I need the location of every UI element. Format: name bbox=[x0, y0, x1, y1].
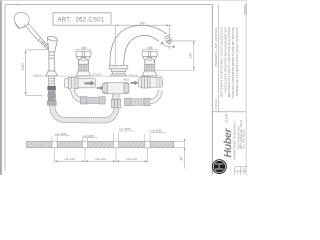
dimension 1500 (hose length) bbox=[26, 50, 47, 96]
svg-text:Huber: Huber bbox=[222, 127, 234, 157]
left supply hose bbox=[72, 89, 105, 105]
svg-text:30: 30 bbox=[180, 157, 184, 161]
hole centerlines down to dim line bbox=[55, 148, 148, 163]
ART box bbox=[53, 13, 111, 25]
svg-text:TEL. 0322 980132: TEL. 0322 980132 bbox=[242, 129, 245, 149]
arrow to tee bbox=[97, 86, 104, 90]
valve 2 escutcheon bbox=[143, 70, 157, 76]
valve 2 handle bbox=[142, 51, 157, 64]
valve2 under-deck body bbox=[139, 77, 163, 88]
svg-text:≈68: ≈68 bbox=[147, 46, 153, 50]
svg-text:57±15: 57±15 bbox=[92, 72, 101, 76]
valve 1 handle bbox=[76, 51, 91, 64]
dimension 130 bbox=[164, 41, 196, 71]
tub rim reference line (130 bottom) bbox=[156, 69, 195, 71]
valve 2 dimension ~68 bbox=[142, 50, 157, 52]
spout arc top bbox=[133, 25, 167, 41]
scan edge shadows bbox=[0, 0, 2, 175]
svg-text:ART. 262.CS01.: ART. 262.CS01. bbox=[57, 18, 106, 24]
svg-text:min.100: min.100 bbox=[95, 157, 106, 161]
svg-text:S.p.A.: S.p.A. bbox=[224, 113, 228, 122]
svg-text:1500: 1500 bbox=[21, 63, 25, 71]
spout base column bbox=[110, 26, 138, 67]
svg-text:min.Ø35: min.Ø35 bbox=[83, 134, 95, 138]
extension lines above holes bbox=[52, 133, 150, 142]
svg-text:min.Ø35: min.Ø35 bbox=[150, 129, 162, 133]
valve1 under-deck body bbox=[65, 77, 96, 89]
valve 1 bonnet bbox=[78, 64, 88, 70]
svg-text:min.100: min.100 bbox=[64, 157, 75, 161]
svg-text:H: H bbox=[215, 162, 227, 170]
hex nut under tee bbox=[112, 99, 121, 108]
Huber logo circle bbox=[212, 159, 227, 174]
valve 1 dimension ~68 bbox=[76, 50, 91, 52]
min.Ø35 labels bbox=[55, 127, 162, 138]
bar thickness dimension 30 bbox=[174, 141, 185, 168]
svg-text:min.100: min.100 bbox=[126, 157, 137, 161]
svg-text:262CS: 262CS bbox=[244, 168, 246, 175]
arrow at valve2 bbox=[131, 81, 139, 86]
svg-text:min.Ø35: min.Ø35 bbox=[55, 132, 67, 136]
right supply hose bbox=[125, 90, 161, 106]
svg-text:≈68: ≈68 bbox=[80, 46, 86, 50]
svg-text:BATERIA DE 4 HUECOS CON DUCHA: BATERIA DE 4 HUECOS CON DUCHA TELEFONO bbox=[235, 26, 239, 96]
spout outlet bbox=[164, 35, 172, 42]
border frame bbox=[5, 5, 212, 171]
bottom-right tiny cells bbox=[235, 167, 247, 175]
svg-text:240: 240 bbox=[139, 21, 145, 25]
svg-text:27-05-03: 27-05-03 bbox=[214, 99, 218, 110]
swivel arrow bbox=[162, 43, 174, 47]
handshower hose (long U) bbox=[52, 102, 116, 120]
rotated description texts bbox=[214, 26, 239, 110]
hose elbow fitting bbox=[47, 101, 56, 105]
holder column bbox=[46, 52, 58, 76]
spout tee body bbox=[103, 83, 129, 100]
bottom dimension line min.100 bbox=[55, 160, 148, 162]
valve 2 bonnet bbox=[145, 64, 155, 70]
svg-text:259282/CS – ART. 262/CS01.: 259282/CS – ART. 262/CS01. bbox=[214, 27, 218, 67]
valve 1 escutcheon bbox=[76, 70, 90, 76]
svg-text:130: 130 bbox=[189, 53, 193, 59]
svg-text:min.Ø35: min.Ø35 bbox=[119, 127, 131, 131]
svg-text:259282: 259282 bbox=[243, 4, 247, 15]
svg-text:28±15: 28±15 bbox=[33, 74, 42, 78]
hand shower handle bbox=[26, 24, 43, 43]
svg-text:Ø22: Ø22 bbox=[124, 78, 130, 82]
svg-text:57±15: 57±15 bbox=[129, 74, 138, 78]
svg-text:RUBINETTERIE TRADIZIONALI: RUBINETTERIE TRADIZIONALI bbox=[233, 121, 237, 160]
arrow at valve1 bbox=[85, 81, 96, 86]
dimension 240 bbox=[112, 25, 172, 67]
hose connector rings bbox=[41, 41, 49, 50]
hand shower holder cup bbox=[47, 36, 58, 52]
spout base collar bbox=[109, 65, 128, 76]
hand shower head bbox=[14, 12, 29, 28]
holder shank bbox=[49, 76, 55, 86]
deck line bbox=[36, 75, 163, 77]
